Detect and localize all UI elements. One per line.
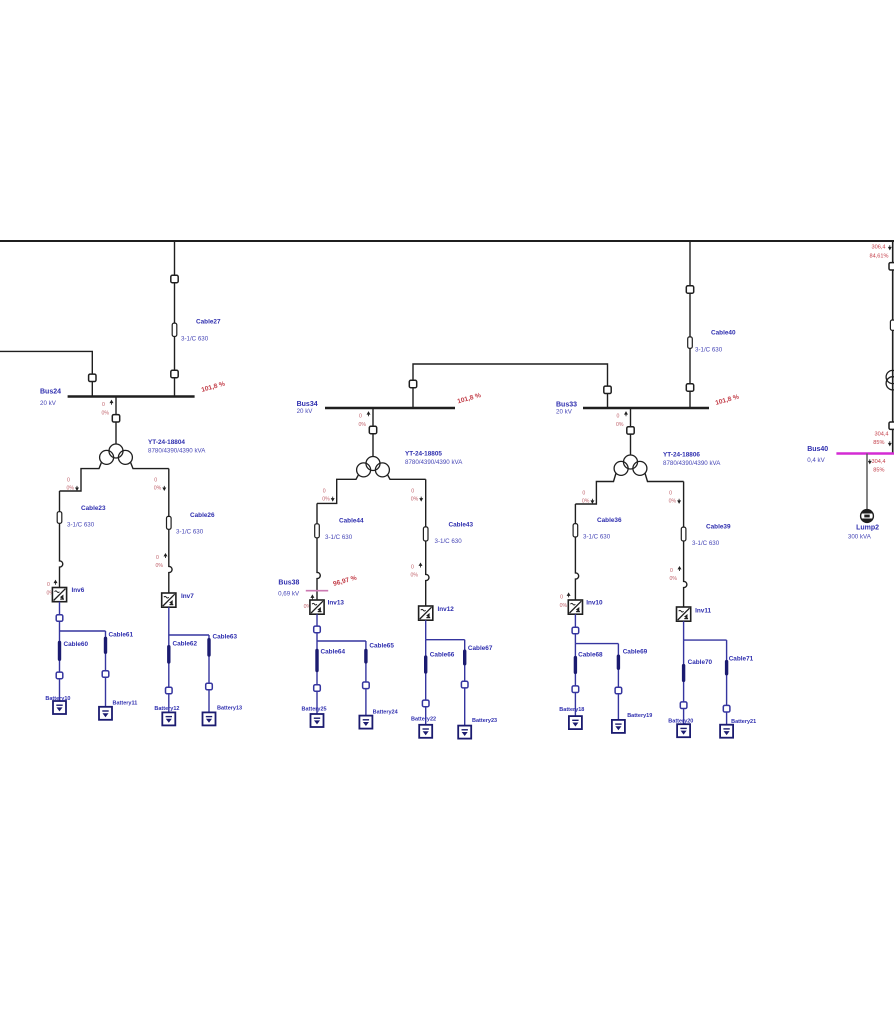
svg-text:0%: 0% xyxy=(411,496,419,502)
svg-text:Cable62: Cable62 xyxy=(173,641,198,648)
svg-text:Battery11: Battery11 xyxy=(113,701,138,707)
svg-text:3-1/C 630: 3-1/C 630 xyxy=(325,534,353,541)
svg-text:0%: 0% xyxy=(322,496,330,502)
svg-text:Battery23: Battery23 xyxy=(472,718,497,724)
svg-text:Cable27: Cable27 xyxy=(196,319,221,326)
svg-text:Cable39: Cable39 xyxy=(706,524,731,531)
svg-text:0: 0 xyxy=(670,568,673,574)
svg-text:85%: 85% xyxy=(873,468,884,474)
svg-text:Inv10: Inv10 xyxy=(586,600,603,607)
svg-text:Cable40: Cable40 xyxy=(711,330,736,337)
svg-text:0%: 0% xyxy=(156,563,164,569)
svg-text:Cable64: Cable64 xyxy=(321,649,346,656)
svg-text:Cable44: Cable44 xyxy=(339,518,364,525)
svg-text:Inv12: Inv12 xyxy=(438,606,455,613)
svg-text:Inv13: Inv13 xyxy=(328,600,345,607)
svg-text:Cable71: Cable71 xyxy=(729,656,754,663)
svg-text:Cable26: Cable26 xyxy=(190,512,215,519)
svg-text:3-1/C 630: 3-1/C 630 xyxy=(67,522,95,529)
svg-text:3-1/C 630: 3-1/C 630 xyxy=(583,534,611,541)
svg-text:0%: 0% xyxy=(669,499,677,505)
svg-text:Cable65: Cable65 xyxy=(369,643,394,650)
svg-text:Cable61: Cable61 xyxy=(109,632,134,639)
svg-text:3-1/C 630: 3-1/C 630 xyxy=(181,336,209,343)
svg-text:0: 0 xyxy=(156,555,159,561)
svg-text:Cable43: Cable43 xyxy=(449,522,474,529)
svg-text:3-1/C 630: 3-1/C 630 xyxy=(695,347,723,354)
svg-text:306,4: 306,4 xyxy=(872,245,886,251)
svg-text:20 kV: 20 kV xyxy=(297,408,314,415)
svg-text:0: 0 xyxy=(560,595,563,601)
svg-text:0: 0 xyxy=(617,414,620,420)
svg-text:Battery24: Battery24 xyxy=(373,710,399,716)
svg-text:3-1/C 630: 3-1/C 630 xyxy=(435,538,463,545)
svg-text:Cable63: Cable63 xyxy=(213,634,238,641)
svg-text:0: 0 xyxy=(67,478,70,484)
svg-text:Battery12: Battery12 xyxy=(154,706,179,712)
svg-text:0%: 0% xyxy=(67,486,75,492)
svg-text:0: 0 xyxy=(669,491,672,497)
svg-text:Battery21: Battery21 xyxy=(731,719,756,725)
svg-text:0: 0 xyxy=(411,488,414,494)
svg-text:0: 0 xyxy=(323,488,326,494)
svg-text:Battery25: Battery25 xyxy=(302,707,327,713)
svg-text:Cable69: Cable69 xyxy=(623,649,648,656)
svg-text:Bus40: Bus40 xyxy=(807,446,828,453)
svg-text:0%: 0% xyxy=(359,422,367,428)
svg-text:Cable36: Cable36 xyxy=(597,517,622,524)
svg-text:0: 0 xyxy=(359,414,362,420)
svg-text:YT-24-18806: YT-24-18806 xyxy=(663,452,700,459)
svg-text:0,4 kV: 0,4 kV xyxy=(807,457,825,464)
svg-text:3-1/C 630: 3-1/C 630 xyxy=(692,540,720,547)
svg-text:Cable23: Cable23 xyxy=(81,505,106,512)
svg-text:20 kV: 20 kV xyxy=(556,409,573,416)
svg-text:Inv11: Inv11 xyxy=(695,608,711,615)
svg-text:Lump2: Lump2 xyxy=(856,525,879,532)
svg-text:Battery13: Battery13 xyxy=(217,706,242,712)
svg-text:0%: 0% xyxy=(154,486,162,492)
svg-text:Battery18: Battery18 xyxy=(559,707,584,713)
svg-text:304,4: 304,4 xyxy=(872,459,886,465)
svg-text:84,61%: 84,61% xyxy=(870,254,889,260)
svg-text:300 kVA: 300 kVA xyxy=(848,534,872,541)
svg-text:Cable68: Cable68 xyxy=(578,652,603,659)
svg-text:0%: 0% xyxy=(582,499,590,505)
svg-text:Inv7: Inv7 xyxy=(181,593,194,600)
svg-text:0%: 0% xyxy=(411,573,419,579)
svg-text:0: 0 xyxy=(411,565,414,571)
svg-text:20 kV: 20 kV xyxy=(40,400,57,407)
svg-text:Battery10: Battery10 xyxy=(45,696,70,702)
svg-text:0: 0 xyxy=(582,491,585,497)
svg-text:8780/4390/4390 kVA: 8780/4390/4390 kVA xyxy=(405,459,463,466)
svg-text:Bus34: Bus34 xyxy=(297,401,318,408)
svg-text:Cable66: Cable66 xyxy=(430,652,455,659)
svg-text:0%: 0% xyxy=(560,603,568,609)
svg-text:Bus33: Bus33 xyxy=(556,402,577,409)
svg-text:Bus38: Bus38 xyxy=(278,580,299,587)
svg-text:Cable70: Cable70 xyxy=(688,659,713,666)
svg-text:Battery19: Battery19 xyxy=(627,713,652,719)
svg-text:8780/4390/4390 kVA: 8780/4390/4390 kVA xyxy=(663,460,721,467)
svg-text:YT-24-18804: YT-24-18804 xyxy=(148,439,185,446)
svg-text:85%: 85% xyxy=(873,440,884,446)
svg-text:Battery20: Battery20 xyxy=(668,719,693,725)
svg-text:0: 0 xyxy=(47,582,50,588)
svg-text:Battery22: Battery22 xyxy=(411,717,436,723)
svg-text:Bus24: Bus24 xyxy=(40,389,61,396)
svg-text:0: 0 xyxy=(154,478,157,484)
svg-text:0,69 kV: 0,69 kV xyxy=(278,591,300,598)
svg-text:YT-24-18805: YT-24-18805 xyxy=(405,451,442,458)
svg-text:0: 0 xyxy=(102,402,105,408)
svg-text:0%: 0% xyxy=(670,576,678,582)
svg-text:Cable67: Cable67 xyxy=(468,645,493,652)
svg-text:0%: 0% xyxy=(102,411,110,417)
svg-text:Cable60: Cable60 xyxy=(64,641,89,648)
svg-text:8780/4390/4390 kVA: 8780/4390/4390 kVA xyxy=(148,448,206,455)
svg-text:3-1/C 630: 3-1/C 630 xyxy=(176,529,204,536)
svg-text:304,4: 304,4 xyxy=(875,432,889,438)
svg-text:Inv6: Inv6 xyxy=(72,587,85,594)
svg-text:0%: 0% xyxy=(616,422,624,428)
